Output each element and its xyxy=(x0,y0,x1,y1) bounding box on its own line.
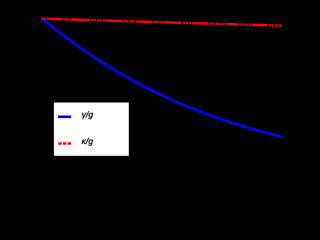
curve gamma/g (blue solid, decaying) xyxy=(42,18,283,136)
figure: decay rates plot on black background xyxy=(0,0,299,185)
curve kappa/g (red dashed, nearly horizontal) xyxy=(41,19,282,26)
legend handle gamma/g (blue line) xyxy=(58,116,71,119)
legend box xyxy=(54,103,129,156)
legend label gamma/g xyxy=(82,111,93,119)
legend handle kappa/g (red dashed) xyxy=(58,142,71,145)
legend label kappa/g xyxy=(82,138,93,146)
